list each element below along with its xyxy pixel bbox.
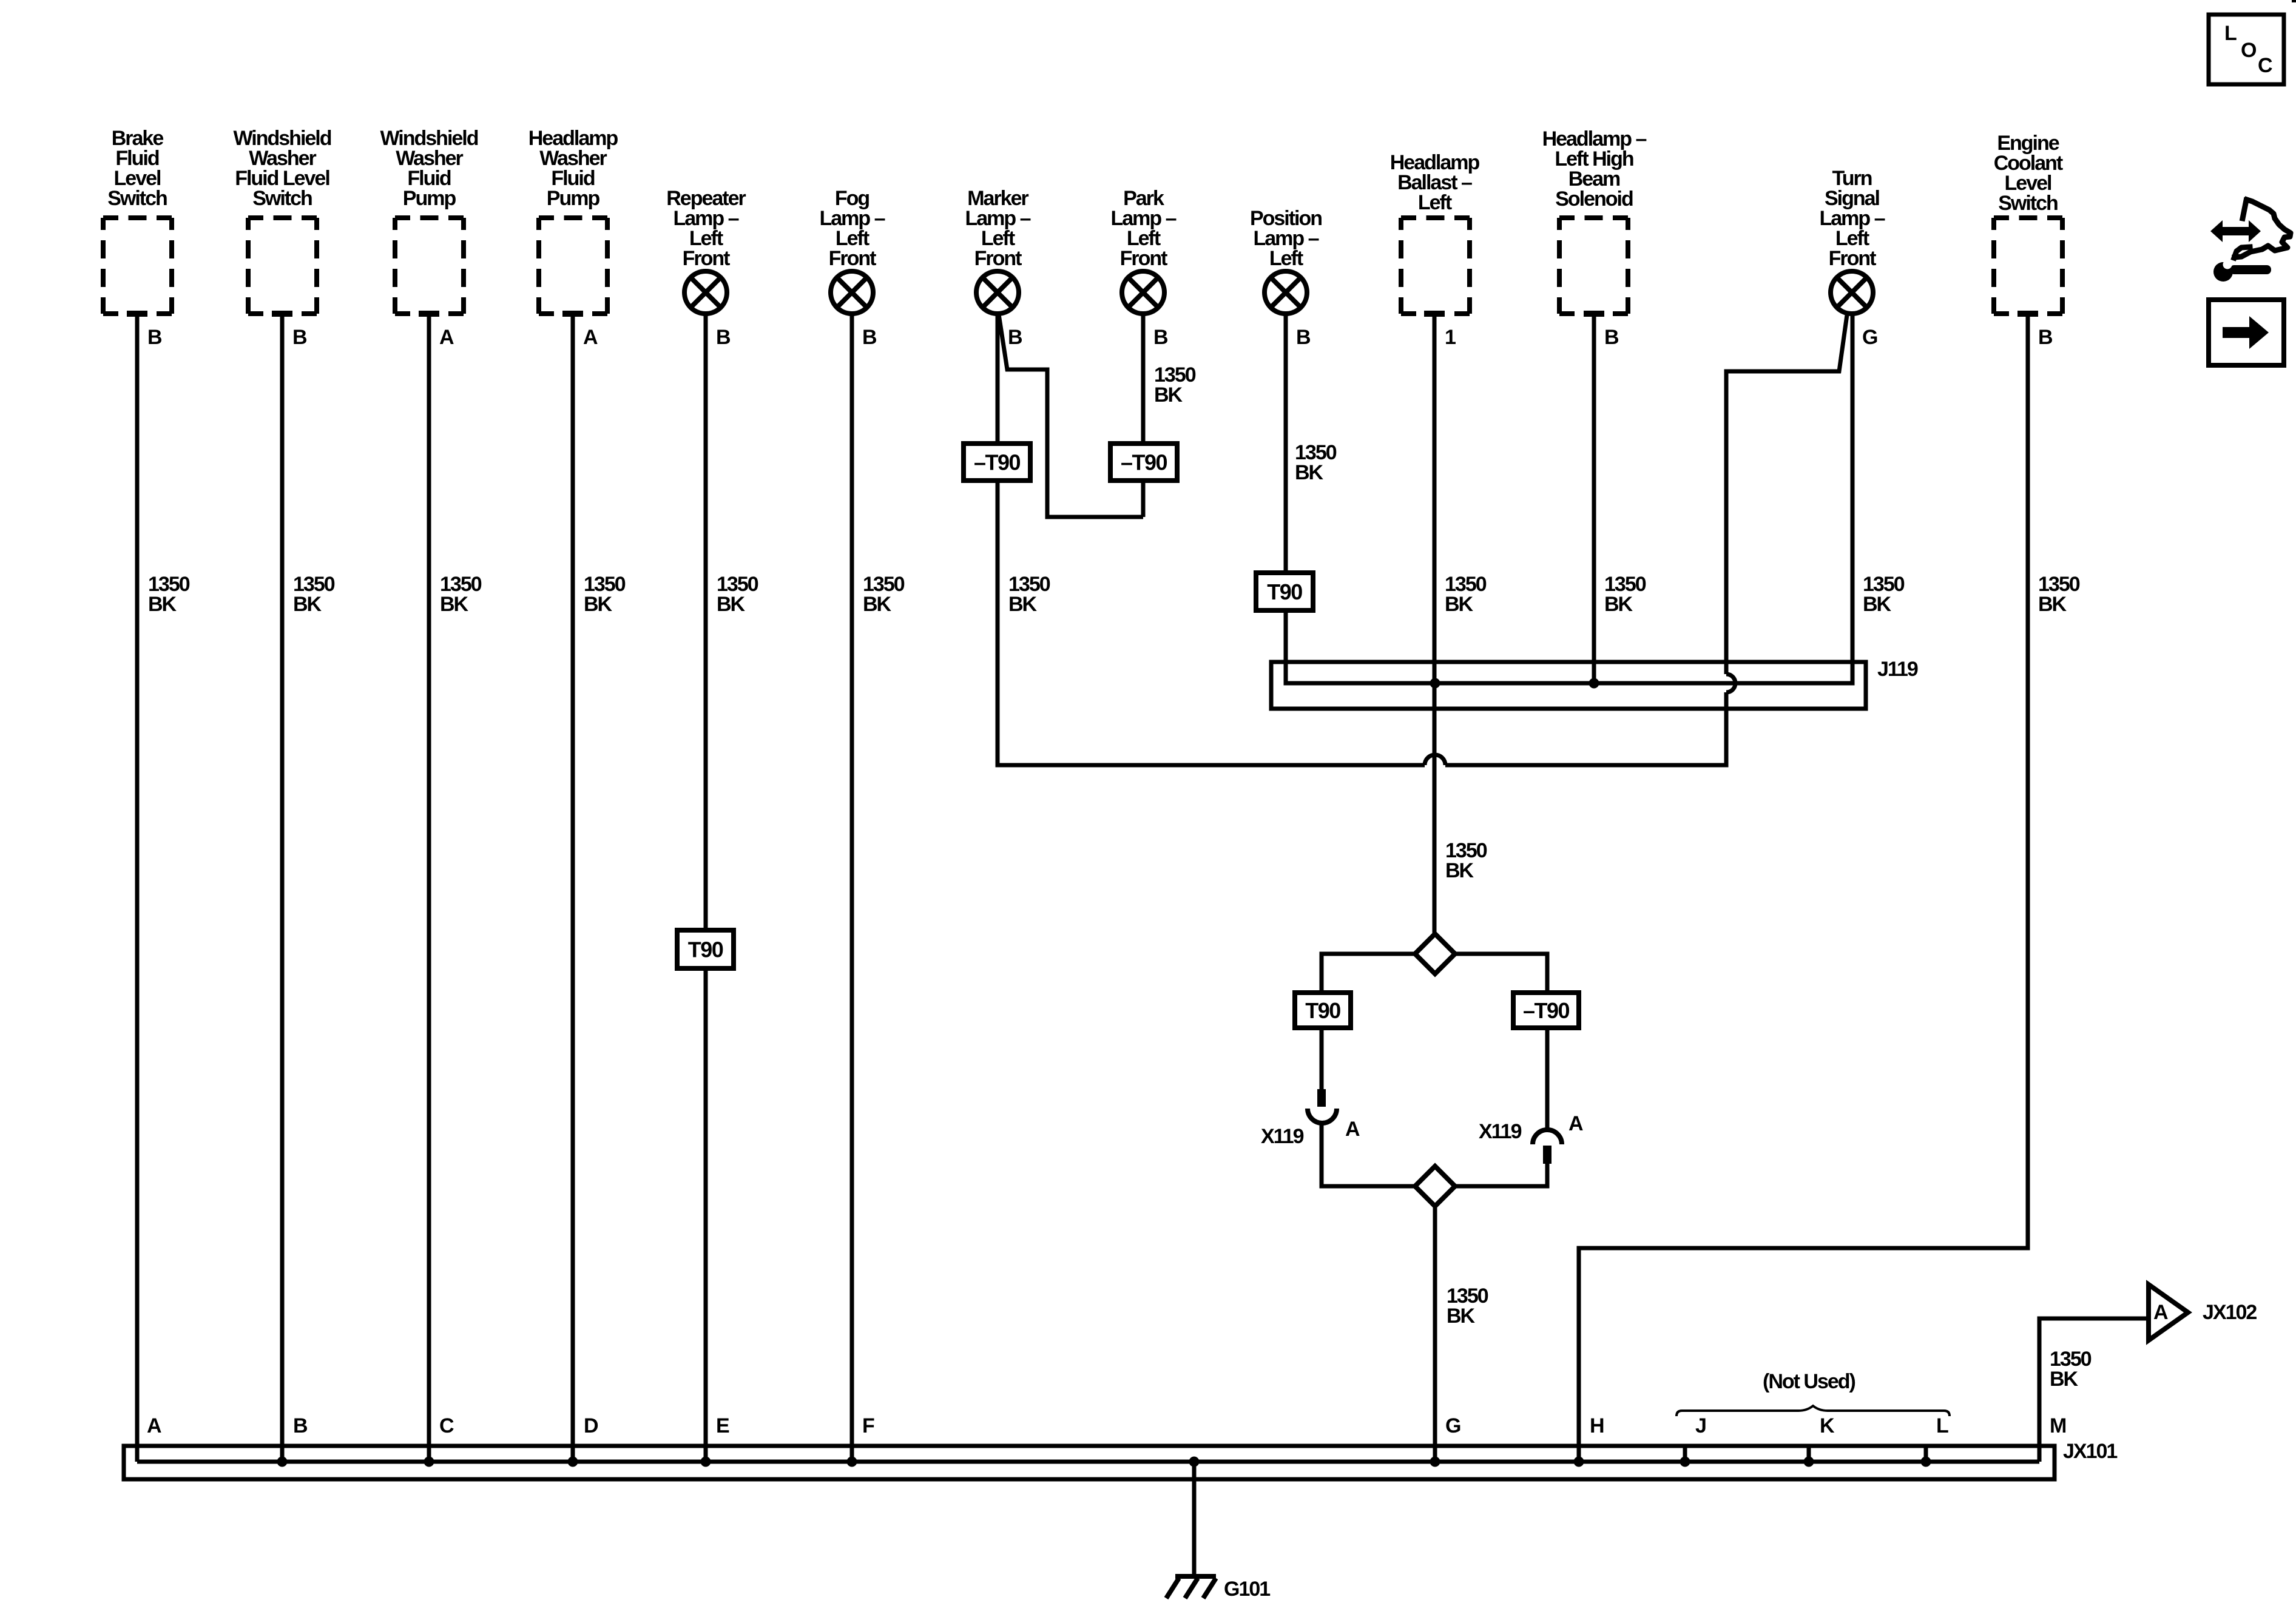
svg-text:BK: BK	[717, 593, 746, 616]
wire marker-to-park branch	[999, 314, 1143, 517]
svg-text:D: D	[584, 1414, 598, 1437]
svg-text:–T90: –T90	[1121, 450, 1167, 475]
wire headlamp ballast wire	[1433, 313, 1437, 934]
connector outline Headlamp - Left High Beam Solenoid (dashed box)	[1559, 218, 1628, 314]
svg-text:X119: X119	[1479, 1120, 1522, 1143]
svg-text:J119: J119	[1877, 658, 1918, 681]
wire turn signal drop wire (vertical x=2845 lower)	[1726, 692, 1729, 765]
svg-text:–T90: –T90	[1523, 998, 1570, 1023]
junction JX101 pin K	[1804, 1457, 1814, 1467]
svg-text:BK: BK	[148, 593, 177, 616]
wire splice output to JX101 pin G	[1433, 1206, 1437, 1462]
svg-text:Front: Front	[683, 247, 731, 270]
svg-text:BK: BK	[2038, 593, 2067, 616]
svg-text:A: A	[1568, 1112, 1583, 1135]
svg-text:T90: T90	[688, 937, 723, 962]
wire engine coolant switch wire	[1579, 313, 2028, 1462]
pin bar Headlamp Ballast pin 1	[1424, 311, 1445, 317]
connector X119 right (pin A)	[1533, 1130, 1562, 1144]
svg-text:BK: BK	[2050, 1368, 2079, 1391]
svg-text:B: B	[1296, 326, 1311, 349]
splice diamond splice diamond upper	[1415, 934, 1455, 974]
junction JX101 pin J	[1680, 1457, 1690, 1467]
connector JX102 triangle	[2149, 1284, 2188, 1340]
svg-text:A: A	[583, 326, 598, 349]
ground G101 symbol	[1166, 1576, 1216, 1598]
lamp symbol Turn Signal Lamp - Left Front	[1831, 271, 1873, 314]
svg-text:B: B	[716, 326, 731, 349]
wire marker lamp ground run (down)	[996, 314, 1000, 765]
svg-text:O: O	[2241, 39, 2257, 62]
svg-text:T90: T90	[1305, 998, 1340, 1023]
svg-text:BK: BK	[1008, 593, 1038, 616]
svg-text:BK: BK	[293, 593, 322, 616]
svg-text:F: F	[862, 1414, 874, 1437]
svg-text:L: L	[2224, 22, 2237, 45]
wire E repeater lamp to JX101	[704, 314, 708, 1462]
svg-text:B: B	[1008, 326, 1022, 349]
svg-text:G101: G101	[1224, 1578, 1270, 1601]
wire JX102 feed wire	[2039, 1318, 2146, 1462]
connector JX101 outline	[124, 1446, 2055, 1479]
wire splice left branch lower	[1322, 1122, 1415, 1186]
junction JX101 pin B	[277, 1457, 288, 1467]
lamp symbol Fog Lamp - Left Front	[831, 271, 873, 314]
svg-text:BK: BK	[584, 593, 613, 616]
svg-text:BK: BK	[1604, 593, 1633, 616]
svg-text:Front: Front	[1829, 247, 1877, 270]
svg-text:BK: BK	[1295, 461, 1324, 484]
junction JX101 pin C	[424, 1457, 434, 1467]
icon: arrow in box	[2209, 300, 2284, 365]
wire F fog lamp to JX101	[850, 314, 854, 1462]
lamp symbol Marker Lamp - Left Front	[976, 271, 1019, 314]
junction J119 bus at ballast wire	[1430, 678, 1440, 689]
svg-text:M: M	[2050, 1414, 2066, 1437]
wire B washer level switch to JX101	[280, 313, 285, 1462]
svg-text:G: G	[1862, 326, 1877, 349]
pin bar Windshield Washer Fluid Level Switch pin B	[272, 311, 292, 317]
icon: body repair glyph (car outline)	[2234, 200, 2291, 258]
svg-text:A: A	[2153, 1301, 2168, 1324]
icon: wrench	[2213, 262, 2233, 282]
connector J119 outline	[1271, 662, 1866, 709]
svg-text:B: B	[2038, 326, 2053, 349]
svg-text:Switch: Switch	[107, 187, 167, 210]
svg-text:JX102: JX102	[2203, 1301, 2257, 1324]
connector outline Brake Fluid Level Switch (dashed box)	[103, 218, 172, 314]
wire C washer pump to JX101	[427, 313, 431, 1462]
svg-text:E: E	[716, 1414, 729, 1437]
svg-text:BK: BK	[1447, 1305, 1476, 1328]
svg-text:T90: T90	[1267, 579, 1302, 604]
pin bar Headlamp Washer Fluid Pump pin A	[562, 311, 583, 317]
connector outline Headlamp Ballast - Left (dashed box)	[1401, 218, 1470, 314]
svg-text:BK: BK	[1445, 859, 1474, 882]
wire G101 ground stub	[1192, 1462, 1197, 1576]
svg-text:X119: X119	[1261, 1125, 1304, 1148]
svg-text:BK: BK	[1863, 593, 1892, 616]
wire hop over J119 bus at (2845,1126)	[1726, 674, 1735, 692]
svg-text:A: A	[147, 1414, 161, 1437]
page corner mark	[2292, 0, 2296, 2]
connector outline Headlamp Washer Fluid Pump (dashed box)	[539, 218, 607, 314]
svg-text:G: G	[1445, 1414, 1460, 1437]
svg-text:H: H	[1590, 1414, 1604, 1437]
junction JX101 pin D	[568, 1457, 578, 1467]
svg-text:Front: Front	[829, 247, 877, 270]
svg-text:BK: BK	[1154, 383, 1183, 407]
svg-text:Left: Left	[1418, 191, 1452, 214]
svg-text:Solenoid: Solenoid	[1555, 187, 1633, 211]
svg-text:B: B	[1153, 326, 1168, 349]
svg-text:A: A	[439, 326, 454, 349]
pin bar Headlamp High Beam Solenoid pin B	[1584, 311, 1604, 317]
svg-text:Switch: Switch	[1998, 192, 2058, 215]
svg-text:Switch: Switch	[252, 187, 312, 210]
icon: body repair glyph (double arrow)	[2210, 220, 2261, 242]
wire A brake switch to JX101	[135, 313, 140, 1462]
connector outline Windshield Washer Fluid Pump (dashed box)	[395, 218, 464, 314]
svg-text:1: 1	[1445, 326, 1456, 349]
junction J119 bus at solenoid wire	[1589, 678, 1599, 689]
svg-text:B: B	[862, 326, 877, 349]
svg-text:BK: BK	[440, 593, 469, 616]
svg-text:Front: Front	[974, 247, 1022, 270]
svg-text:B: B	[292, 326, 307, 349]
svg-text:J: J	[1695, 1414, 1706, 1437]
svg-text:C: C	[439, 1414, 454, 1437]
svg-text:Pump: Pump	[547, 187, 600, 210]
svg-text:B: B	[1604, 326, 1619, 349]
splice box -T90 on splice right branch	[1513, 993, 1579, 1028]
junction JX101 pin G101 drop	[1189, 1457, 1200, 1467]
wire D headlamp washer pump to JX101	[571, 313, 575, 1462]
wire splice right branch (-T90 side)	[1455, 954, 1547, 1130]
junction JX101 pin H	[1574, 1457, 1584, 1467]
pin bar Windshield Washer Fluid Pump pin A	[419, 311, 439, 317]
svg-text:C: C	[2258, 54, 2272, 77]
splice box T90 on splice left branch	[1295, 993, 1351, 1028]
splice box -T90 on marker wire	[964, 444, 1030, 481]
connector outline Engine Coolant Level Switch (dashed box)	[1994, 218, 2062, 314]
junction JX101 pin L	[1921, 1457, 1931, 1467]
wire turn signal drop wire (vertical x=2845 upper + top run)	[1726, 315, 1847, 674]
svg-text:(Not Used): (Not Used)	[1763, 1370, 1855, 1393]
svg-text:Front: Front	[1120, 247, 1168, 270]
junction JX101 pin F	[847, 1457, 857, 1467]
wire marker-to-turnsignal horizontal right segment	[1445, 763, 1726, 768]
wire high beam solenoid wire	[1592, 313, 1596, 683]
svg-text:JX101: JX101	[2063, 1440, 2117, 1463]
wire J119 ground bus	[1286, 314, 1852, 683]
svg-text:L: L	[1936, 1414, 1948, 1437]
splice box T90 on repeater wire	[677, 930, 734, 968]
svg-text:K: K	[1820, 1414, 1835, 1437]
wire marker-to-turnsignal horizontal left segment	[998, 763, 1425, 766]
wire JX101 stub L	[1924, 1446, 1928, 1462]
wire JX101 stub J	[1683, 1446, 1687, 1462]
lamp symbol Repeater Lamp - Left Front	[684, 271, 727, 314]
svg-text:B: B	[147, 326, 162, 349]
junction JX101 pin G	[1430, 1457, 1440, 1467]
brace over unused pins J K L	[1676, 1406, 1950, 1416]
svg-text:B: B	[293, 1414, 308, 1437]
splice box T90 on position wire	[1256, 573, 1313, 610]
svg-text:BK: BK	[863, 593, 892, 616]
wire splice left branch (T90 side)	[1322, 954, 1415, 1089]
splice box -T90 on park wire	[1110, 444, 1177, 481]
connector outline Windshield Washer Fluid Level Switch (dashed box)	[248, 218, 317, 314]
wire position lamp wire	[1284, 314, 1288, 683]
wire splice right branch lower	[1455, 1164, 1547, 1186]
pin bar Brake Fluid Level Switch pin B	[127, 311, 147, 317]
splice diamond splice diamond lower	[1415, 1166, 1455, 1206]
svg-text:Pump: Pump	[403, 187, 456, 210]
wire JX101 ground bus	[137, 1460, 2039, 1464]
LOC legend box	[2209, 15, 2284, 84]
lamp symbol Park Lamp - Left Front	[1122, 271, 1164, 314]
wire hop over ballast wire at (2365,1261)	[1425, 755, 1445, 765]
pin bar Engine Coolant Level Switch pin B	[2017, 311, 2038, 317]
connector X119 left (pin A)	[1317, 1089, 1326, 1107]
svg-text:–T90: –T90	[974, 450, 1021, 475]
wire JX101 stub K	[1807, 1446, 1811, 1462]
junction JX101 pin E	[701, 1457, 711, 1467]
wire park lamp wire	[1141, 314, 1146, 517]
svg-text:BK: BK	[1445, 593, 1474, 616]
svg-text:Left: Left	[1269, 247, 1303, 270]
lamp symbol Position Lamp - Left	[1264, 271, 1307, 314]
svg-text:A: A	[1345, 1118, 1360, 1141]
